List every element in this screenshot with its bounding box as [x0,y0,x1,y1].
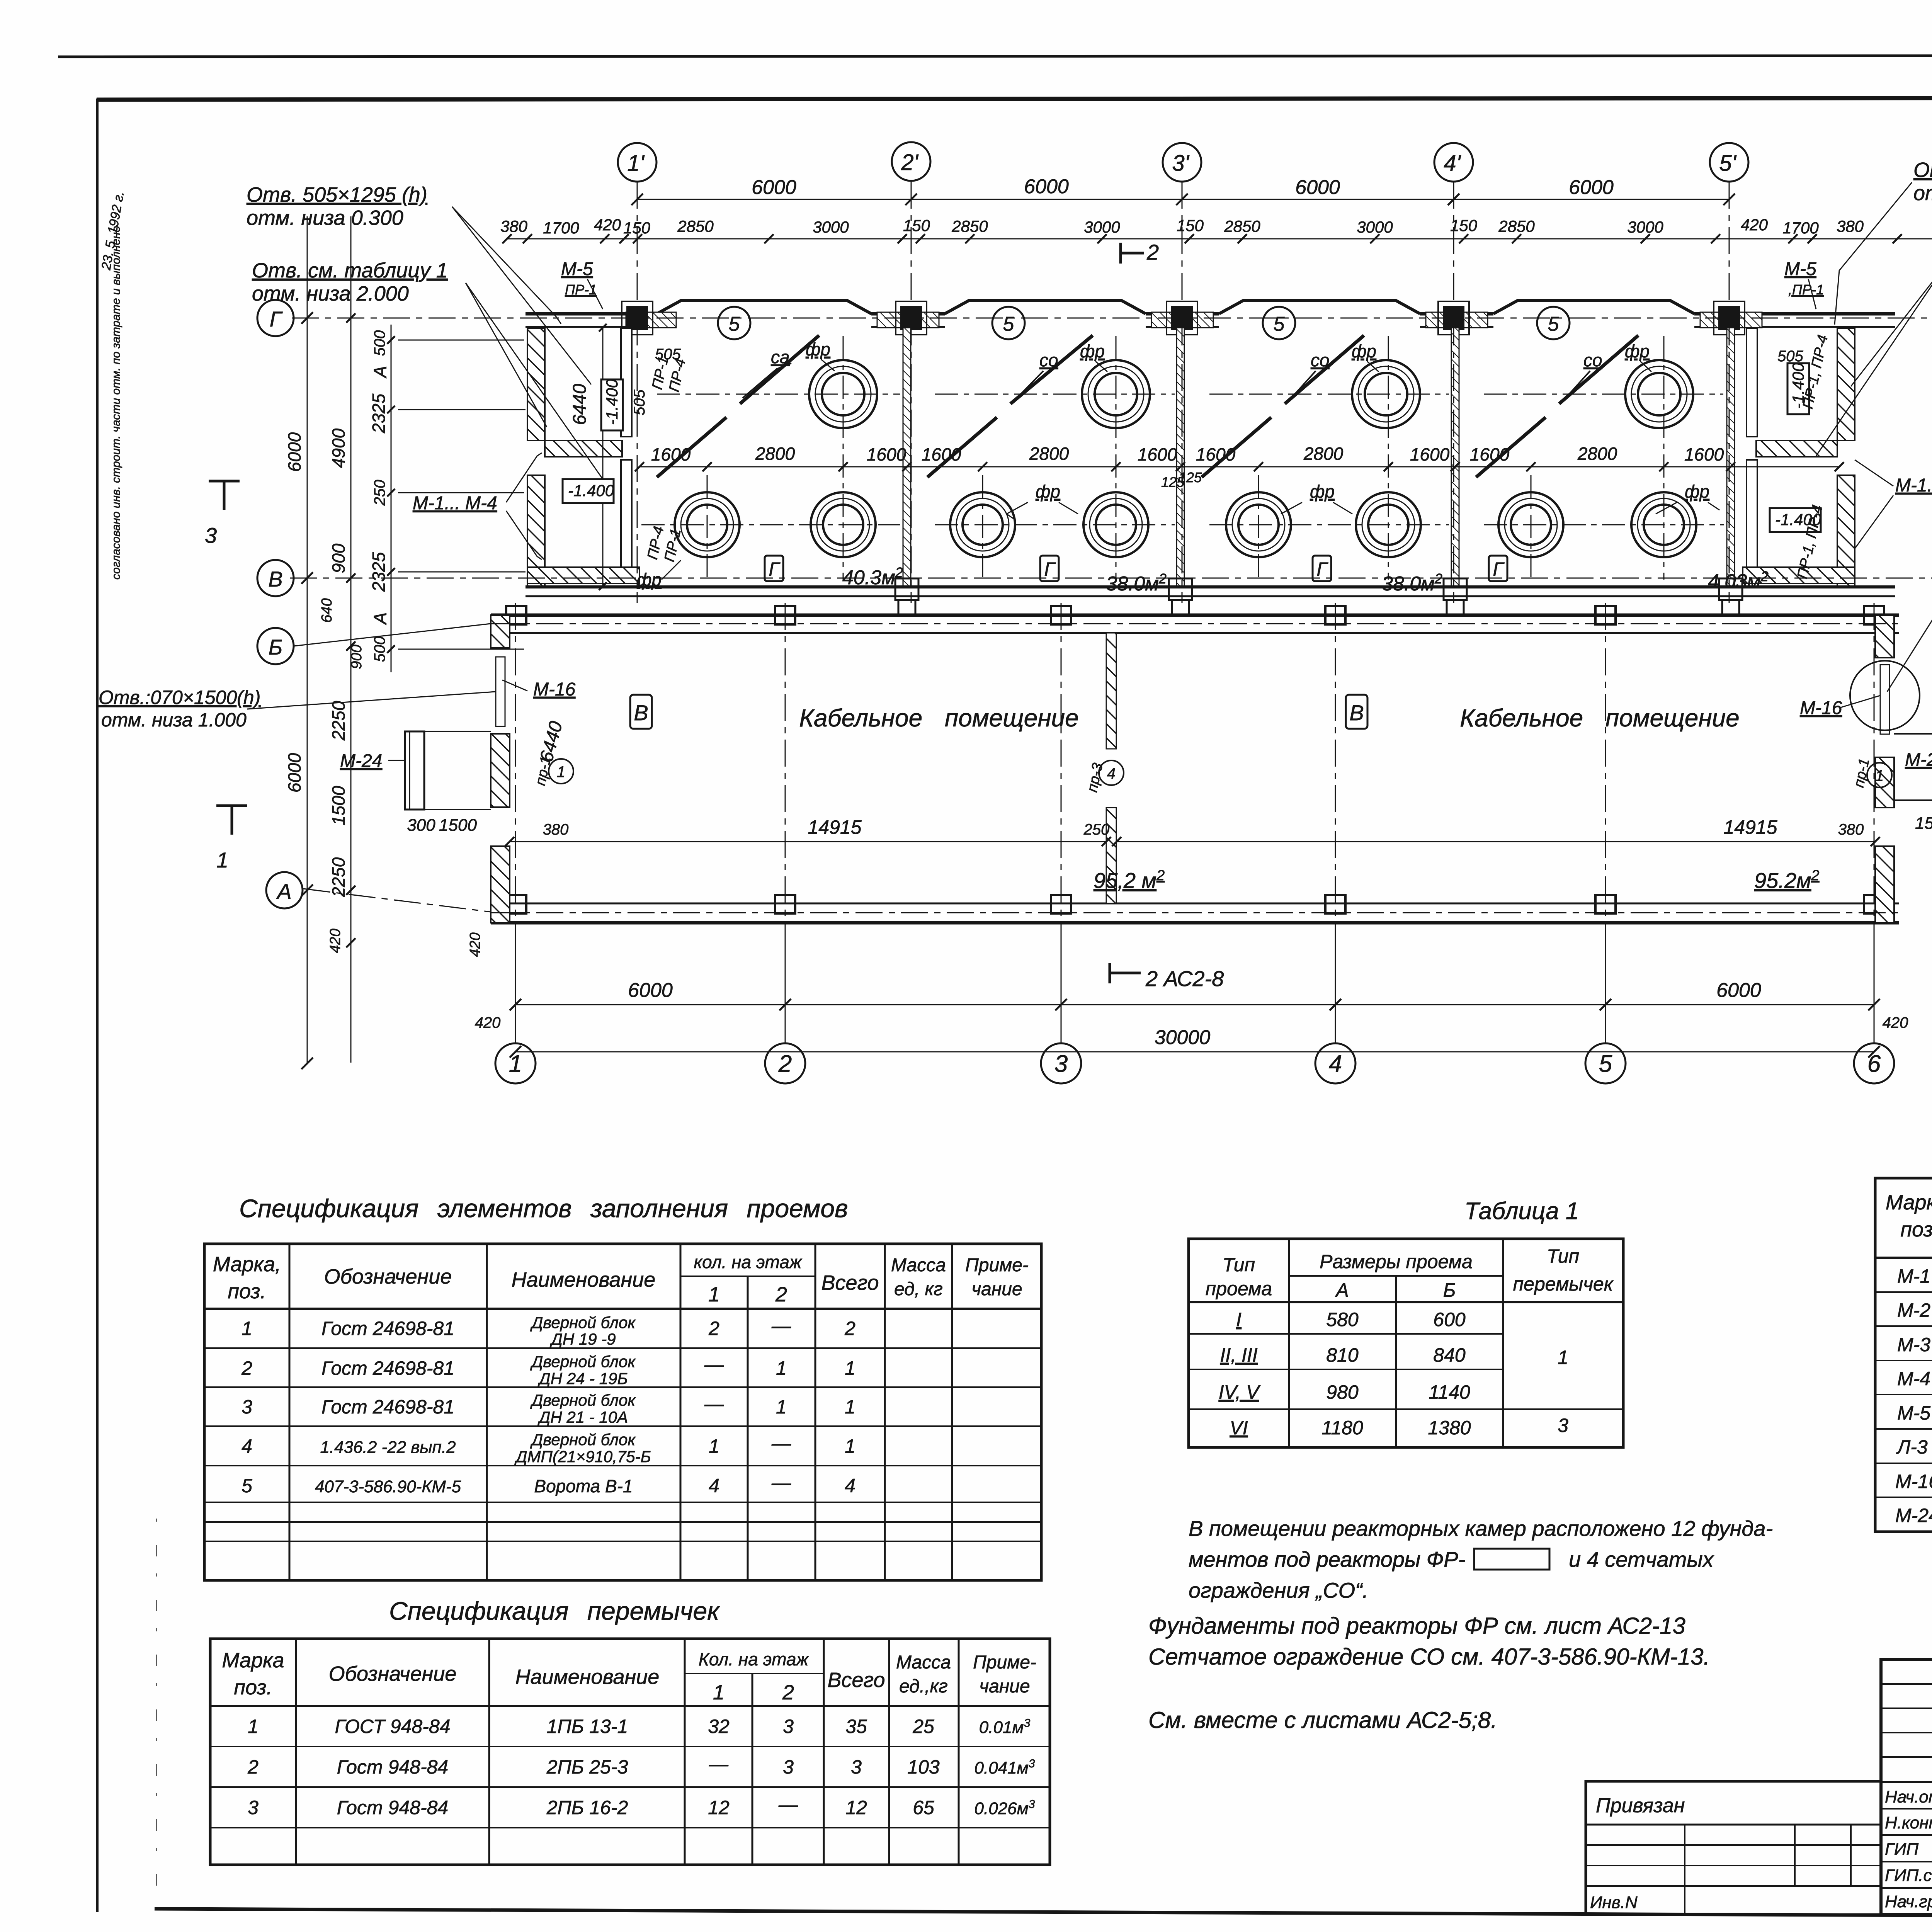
svg-text:38.0м2: 38.0м2 [1382,571,1442,595]
svg-text:420: 420 [467,932,483,957]
svg-text:Марка,: Марка, [1886,1191,1932,1214]
svg-text:2325: 2325 [369,552,389,592]
svg-text:поз.: поз. [234,1676,272,1699]
svg-text:М-1... М-4: М-1... М-4 [1895,475,1932,496]
cable room inner dim 14915 [510,841,1875,842]
svg-text:810: 810 [1326,1344,1359,1366]
svg-text:Всего: Всего [827,1668,885,1692]
column pads on axis Г at 1'..5' [626,306,1740,330]
svg-text:420: 420 [475,1014,501,1031]
svg-text:840: 840 [1433,1344,1466,1366]
svg-text:—: — [771,1472,791,1493]
svg-text:ГОСТ 948-84: ГОСТ 948-84 [335,1716,451,1737]
svg-text:1600: 1600 [651,444,691,464]
svg-text:420: 420 [1741,216,1768,234]
svg-text:1500: 1500 [1915,814,1932,833]
svg-text:со: со [1039,350,1058,370]
svg-text:фр: фр [1310,481,1335,502]
middle partition wall pr-3 [1106,633,1116,903]
svg-text:ГИП: ГИП [1885,1840,1918,1859]
svg-text:1: 1 [845,1396,855,1418]
svg-text:3: 3 [783,1716,794,1737]
G section boxes [765,556,1507,581]
svg-text:Всего: Всего [821,1271,879,1294]
svg-text:380: 380 [1838,821,1864,838]
svg-text:Отв.:070×1500(h): Отв.:070×1500(h) [99,687,260,708]
svg-text:640: 640 [319,598,335,622]
signature rows [1885,1787,1932,1911]
svg-text:—: — [704,1354,724,1375]
svg-text:ограждения „СО“.: ограждения „СО“. [1189,1578,1368,1602]
cable block top wall [491,615,1899,633]
svg-text:4: 4 [845,1475,855,1497]
svg-text:Дверной блок: Дверной блок [530,1313,636,1332]
svg-text:2': 2' [901,150,918,175]
svg-text:М-5: М-5 [1897,1402,1930,1424]
fence leader kinks [743,363,1590,398]
svg-text:Отв. 505×1295 (h): Отв. 505×1295 (h) [247,183,427,206]
svg-text:1600: 1600 [1196,444,1236,464]
svg-text:фр: фр [806,339,830,359]
svg-text:1: 1 [509,1051,522,1077]
svg-text:95,2 м2: 95,2 м2 [1094,867,1165,893]
svg-text:ДН 24 - 19Б: ДН 24 - 19Б [537,1369,628,1388]
svg-text:6000: 6000 [752,176,796,199]
partition base pads [895,578,1742,616]
outer top border line [58,55,1932,57]
svg-text:5: 5 [241,1475,252,1497]
svg-text:са: са [771,347,790,367]
svg-text:14915: 14915 [808,816,861,838]
svg-text:4: 4 [1329,1051,1342,1077]
svg-text:1: 1 [845,1357,855,1379]
svg-text:Гост 948-84: Гост 948-84 [337,1797,448,1818]
svg-text:65: 65 [913,1797,934,1818]
cable block bottom wall (axis A) [491,903,1899,923]
svg-text:Спецификация элементов запол: Спецификация элементов заполнения проемо… [239,1194,848,1223]
svg-text:Приме-: Приме- [965,1255,1029,1276]
svg-text:6000: 6000 [1569,176,1614,199]
svg-text:1600: 1600 [1410,444,1450,464]
svg-text:2325: 2325 [369,393,389,434]
svg-text:фр: фр [1685,481,1709,502]
svg-text:фр: фр [1352,341,1376,361]
reactor room bottom wall (axis B) [526,587,1895,596]
svg-text:В: В [634,701,648,725]
svg-text:Марка,: Марка, [213,1253,281,1276]
svg-text:Марка: Марка [222,1649,284,1672]
svg-text:2800: 2800 [755,444,795,464]
svg-text:ДН 19 -9: ДН 19 -9 [549,1330,616,1348]
svg-text:580: 580 [1326,1309,1359,1330]
svg-text:40.3м2: 40.3м2 [842,565,903,589]
M-24 stub right [1894,734,1932,800]
svg-text:1: 1 [708,1283,720,1306]
svg-text:Г: Г [1493,558,1505,580]
svg-text:0.026м3: 0.026м3 [975,1798,1035,1818]
upper-left opening notes [247,183,448,305]
svg-text:Гост 24698-81: Гост 24698-81 [321,1318,454,1339]
svg-text:фр: фр [637,570,662,590]
svg-text:Кабельное помещение: Кабельное помещение [1460,704,1739,732]
svg-text:1500: 1500 [328,786,349,825]
svg-text:500: 500 [371,330,388,356]
svg-text:1600: 1600 [1470,444,1510,464]
svg-text:32: 32 [708,1716,730,1737]
svg-text:505: 505 [655,346,681,363]
svg-text:Отв. см. таблицу 1: Отв. см. таблицу 1 [252,259,448,282]
axis circles left [257,300,303,908]
svg-text:14915: 14915 [1723,816,1777,838]
mark circle 5 (1) [718,307,1570,339]
svg-text:407-3-586.90-КМ-5: 407-3-586.90-КМ-5 [315,1477,461,1496]
svg-text:2: 2 [775,1283,787,1306]
svg-text:Обозначение: Обозначение [329,1662,457,1685]
foundation centrelines [641,336,1724,580]
svg-text:чание: чание [971,1279,1022,1299]
svg-text:5: 5 [1548,313,1560,335]
vertical dim 6440 [602,328,604,586]
svg-text:1600: 1600 [922,444,961,464]
svg-text:со: со [1583,350,1602,370]
svg-text:3: 3 [1054,1051,1068,1077]
svg-text:отм. низа 1.000: отм. низа 1.000 [101,709,247,731]
svg-text:Л-3: Л-3 [1896,1436,1928,1458]
svg-text:6000: 6000 [1295,176,1340,199]
svg-text:420: 420 [327,929,344,953]
svg-text:980: 980 [1326,1381,1359,1403]
svg-text:перемычек: перемычек [1513,1273,1614,1295]
svg-text:ед.,кг: ед.,кг [899,1676,948,1697]
svg-text:3: 3 [851,1756,862,1778]
svg-text:Таблица 1: Таблица 1 [1464,1198,1579,1225]
svg-text:ДН 21 - 10А: ДН 21 - 10А [537,1408,628,1426]
svg-text:4: 4 [1107,765,1116,782]
svg-text:поз.: поз. [1900,1218,1932,1241]
svg-text:1700: 1700 [543,219,579,237]
svg-text:38.0м2: 38.0м2 [1106,571,1167,595]
svg-text:12: 12 [708,1797,730,1818]
svg-text:4.03м2: 4.03м2 [1708,568,1769,593]
svg-text:ГИП.стр.: ГИП.стр. [1885,1866,1932,1885]
svg-text:Спецификация перемычек: Спецификация перемычек [389,1597,720,1625]
svg-text:М-5: М-5 [1784,259,1816,279]
svg-text:отм. низа 0.300: отм. низа 0.300 [247,206,403,230]
svg-text:Масса: Масса [896,1652,951,1673]
fr labels top [806,339,1650,361]
svg-text:0.041м3: 0.041м3 [975,1757,1035,1777]
svg-text:1140: 1140 [1429,1381,1470,1403]
svg-text:1: 1 [248,1716,259,1737]
section marks [209,243,1932,983]
svg-text:Кабельное помещение: Кабельное помещение [799,704,1078,732]
svg-text:1380: 1380 [1428,1417,1471,1439]
fr labels bottom [637,481,1709,590]
bottom dimension lines [515,923,1874,1052]
svg-text:2850: 2850 [1224,217,1260,235]
svg-text:Нач.отд.: Нач.отд. [1885,1787,1932,1806]
svg-text:В помещении реакторных камер р: В помещении реакторных камер расположено… [1189,1516,1773,1541]
svg-text:4': 4' [1444,151,1461,176]
svg-text:1700: 1700 [1782,219,1819,237]
svg-text:2: 2 [778,1051,792,1077]
svg-text:3000: 3000 [1084,218,1120,236]
svg-text:проема: проема [1206,1278,1272,1299]
svg-text:5: 5 [1274,313,1285,335]
PR labels rotated [532,333,1873,794]
archive dashed mark line [156,1519,157,1893]
svg-text:2ПБ 25-3: 2ПБ 25-3 [546,1756,628,1778]
svg-text:505: 505 [1777,348,1803,365]
svg-text:3000: 3000 [1627,218,1663,236]
svg-text:1.436.2 -22 вып.2: 1.436.2 -22 вып.2 [320,1438,456,1457]
left entry block walls [527,328,639,587]
svg-text:М-16: М-16 [1800,698,1842,718]
svg-text:Размеры проема: Размеры проема [1320,1251,1473,1272]
svg-text:отм. низа 0.300: отм. низа 0.300 [1913,182,1932,205]
svg-text:А: А [276,879,291,903]
svg-text:0.01м3: 0.01м3 [979,1717,1031,1737]
svg-text:VI: VI [1230,1417,1248,1439]
svg-text:500: 500 [371,636,388,662]
svg-text:4900: 4900 [328,428,349,468]
svg-text:3: 3 [205,523,217,548]
svg-text:1600: 1600 [1138,444,1177,464]
svg-text:2850: 2850 [951,217,988,235]
svg-text:300: 300 [407,816,435,835]
svg-text:Масса: Масса [891,1255,946,1276]
svg-text:согласовано инв. строит. части: согласовано инв. строит. части отм. по з… [110,226,122,580]
svg-text:Б: Б [1443,1279,1456,1301]
svg-text:фр: фр [1036,481,1060,502]
svg-text:3: 3 [783,1756,794,1778]
svg-text:Кол. на этаж: Кол. на этаж [699,1649,810,1669]
svg-text:М-24: М-24 [1895,1505,1932,1526]
M-24 stub left [405,731,491,810]
svg-text:3000: 3000 [813,218,849,236]
svg-text:2800: 2800 [1303,444,1344,464]
cable block left wall with M-16 opening [491,615,510,923]
svg-text:2: 2 [241,1357,252,1379]
svg-text:—: — [771,1432,791,1454]
svg-text:1: 1 [216,848,228,872]
svg-text:1ПБ 13-1: 1ПБ 13-1 [547,1716,628,1737]
svg-text:М-16: М-16 [533,679,576,700]
svg-text:250: 250 [1083,821,1110,838]
svg-text:3: 3 [241,1396,252,1418]
top dimension row 6000s [506,199,1932,239]
svg-text:Привязан: Привязан [1596,1794,1685,1817]
svg-text:1': 1' [627,151,645,176]
svg-text:25: 25 [912,1716,934,1737]
svg-text:6000: 6000 [628,979,673,1002]
right entry block walls [1743,328,1855,587]
svg-text:—: — [778,1794,798,1815]
svg-text:2: 2 [844,1318,855,1339]
svg-text:95.2м2: 95.2м2 [1754,867,1820,893]
B boxes [630,695,1367,729]
svg-text:5: 5 [1003,313,1015,335]
svg-text:Б: Б [269,635,282,659]
svg-text:12: 12 [845,1797,867,1818]
svg-text:2850: 2850 [1498,217,1535,235]
hatched pads on top wall [626,312,1762,328]
leader lines from left axis circles [294,624,491,646]
svg-text:Сетчатое ограждение СО см.: Сетчатое ограждение СО см. 407-3-586.90-… [1148,1644,1710,1670]
chamber dim line 1600 2800 1600 [639,466,1839,468]
svg-text:М-1: М-1 [1897,1265,1930,1287]
svg-text:30000: 30000 [1155,1026,1211,1049]
svg-text:Дверной блок: Дверной блок [530,1391,636,1409]
svg-text:150: 150 [903,216,930,235]
svg-text:1: 1 [557,764,565,781]
svg-text:Гост 948-84: Гост 948-84 [337,1756,448,1778]
svg-text:поз.: поз. [228,1280,266,1303]
svg-text:125: 125 [1161,474,1185,490]
svg-text:А: А [370,366,390,379]
column squares on cable walls [506,606,1884,913]
svg-text:ментов под реакторы ФР-: ментов под реакторы ФР- [1189,1547,1465,1571]
chamber partition walls [903,328,1735,587]
svg-text:2800: 2800 [1577,444,1617,464]
svg-text:3: 3 [1558,1415,1568,1436]
svg-text:103: 103 [907,1756,940,1778]
svg-text:Наименование: Наименование [515,1665,660,1689]
svg-text:Г: Г [1044,558,1056,580]
svg-text:1: 1 [241,1318,252,1339]
svg-text:2250: 2250 [328,701,349,741]
svg-text:ДМП(21×910,75-Б: ДМП(21×910,75-Б [514,1447,651,1466]
svg-text:6440: 6440 [570,384,590,425]
svg-text:900: 900 [328,543,349,573]
top right opening notes [1913,158,1932,286]
svg-text:1600: 1600 [867,444,906,464]
svg-text:2: 2 [708,1318,719,1339]
cable block right wall with M-16 opening [1875,615,1894,923]
svg-text:Гост 24698-81: Гост 24698-81 [321,1357,454,1379]
svg-text:Наименование: Наименование [512,1268,656,1291]
svg-text:М-4: М-4 [1897,1368,1930,1389]
svg-text:В: В [1349,701,1364,725]
axis circles bottom 1-6 [495,1043,1894,1083]
svg-text:4: 4 [241,1435,252,1457]
axis dash-dot lines [290,182,1932,1043]
svg-text:3': 3' [1172,151,1189,176]
svg-text:1600: 1600 [1684,444,1724,464]
svg-text:2: 2 [782,1681,794,1704]
svg-text:5: 5 [729,313,740,335]
svg-text:со: со [1311,350,1330,370]
svg-text:М-1... М-4: М-1... М-4 [413,493,497,514]
svg-text:1: 1 [1558,1347,1568,1368]
area labels [842,565,1769,595]
svg-text:М-24: М-24 [1905,750,1932,770]
svg-text:420: 420 [1883,1014,1908,1031]
inner horizontal dim lines upper-left room [398,340,526,649]
svg-text:Отв.505×12.95 (h): Отв.505×12.95 (h) [1913,158,1932,182]
svg-text:380: 380 [500,217,528,235]
svg-text:6000: 6000 [1716,979,1761,1002]
svg-text:В: В [268,567,282,591]
svg-text:и 4 сетчатых: и 4 сетчатых [1569,1547,1714,1571]
privyazan table [1586,1781,1881,1915]
svg-text:150: 150 [1450,216,1478,235]
svg-text:6000: 6000 [284,432,304,472]
svg-text:кол. на этаж: кол. на этаж [694,1252,802,1272]
svg-text:600: 600 [1433,1309,1466,1330]
svg-text:2ПБ 16-2: 2ПБ 16-2 [546,1797,628,1818]
svg-text:4: 4 [709,1475,719,1497]
svg-text:2: 2 [1146,240,1159,264]
svg-text:1: 1 [1875,767,1884,784]
svg-text:1180: 1180 [1321,1417,1363,1439]
svg-text:2250: 2250 [328,857,349,897]
svg-text:Приме-: Приме- [973,1652,1036,1673]
svg-text:250: 250 [371,480,388,506]
svg-text:чание: чание [979,1676,1030,1697]
svg-text:2800: 2800 [1029,444,1069,464]
svg-text:I: I [1236,1309,1242,1330]
svg-text:150: 150 [1177,216,1204,235]
foundations FR bottom row [675,492,1696,557]
svg-text:Тип: Тип [1223,1254,1255,1276]
svg-text:—: — [704,1393,724,1415]
svg-text:380: 380 [1837,217,1864,235]
svg-text:отм. низа 2.000: отм. низа 2.000 [252,282,409,305]
svg-text:Н.контор.: Н.контор. [1885,1813,1932,1832]
svg-text:Гост 24698-81: Гост 24698-81 [321,1396,454,1418]
svg-text:2: 2 [247,1756,259,1778]
mesh fence CO diagonals [657,335,1638,477]
svg-text:-1.400: -1.400 [603,379,621,425]
svg-text:М-2: М-2 [1897,1299,1930,1321]
svg-text:Ворота В-1: Ворота В-1 [534,1476,633,1496]
svg-text:IV, V: IV, V [1219,1381,1261,1403]
svg-text:6000: 6000 [1024,175,1069,198]
svg-text:6000: 6000 [284,753,304,793]
svg-text:1: 1 [713,1681,724,1704]
svg-text:Нач.гр.: Нач.гр. [1885,1892,1932,1911]
-1.400 level boxes [563,363,1821,532]
svg-text:См. вместе с листами АС2-5;: См. вместе с листами АС2-5;8. [1148,1707,1497,1733]
svg-text:,ПР-1: ,ПР-1 [1788,282,1824,298]
svg-text:900: 900 [349,645,365,669]
axis circles top 1'-5' [618,142,1748,182]
svg-text:1: 1 [709,1435,719,1457]
svg-text:—: — [771,1315,791,1337]
svg-text:2 АС2-8: 2 АС2-8 [1145,966,1224,991]
svg-text:Инв.N: Инв.N [1590,1893,1638,1912]
top wall along axis Г [526,314,1895,327]
svg-text:М-24: М-24 [340,751,382,771]
svg-text:6: 6 [1867,1051,1881,1077]
svg-text:3000: 3000 [1357,218,1393,236]
svg-text:35: 35 [845,1716,867,1737]
svg-text:1: 1 [776,1396,787,1418]
svg-text:ПР-1: ПР-1 [565,282,597,298]
svg-text:фр: фр [1625,341,1650,361]
svg-text:II, III: II, III [1220,1344,1257,1366]
svg-text:Дверной блок: Дверной блок [530,1352,636,1371]
svg-text:-1.400: -1.400 [568,481,614,500]
svg-text:М-3: М-3 [1897,1334,1930,1355]
svg-text:1: 1 [845,1435,855,1457]
svg-text:Дверной блок: Дверной блок [530,1430,636,1449]
canopy zigzag line above top wall [657,301,1694,314]
left mid opening note [99,687,260,731]
svg-text:ед, кг: ед, кг [894,1279,943,1299]
svg-text:Г: Г [270,307,283,331]
